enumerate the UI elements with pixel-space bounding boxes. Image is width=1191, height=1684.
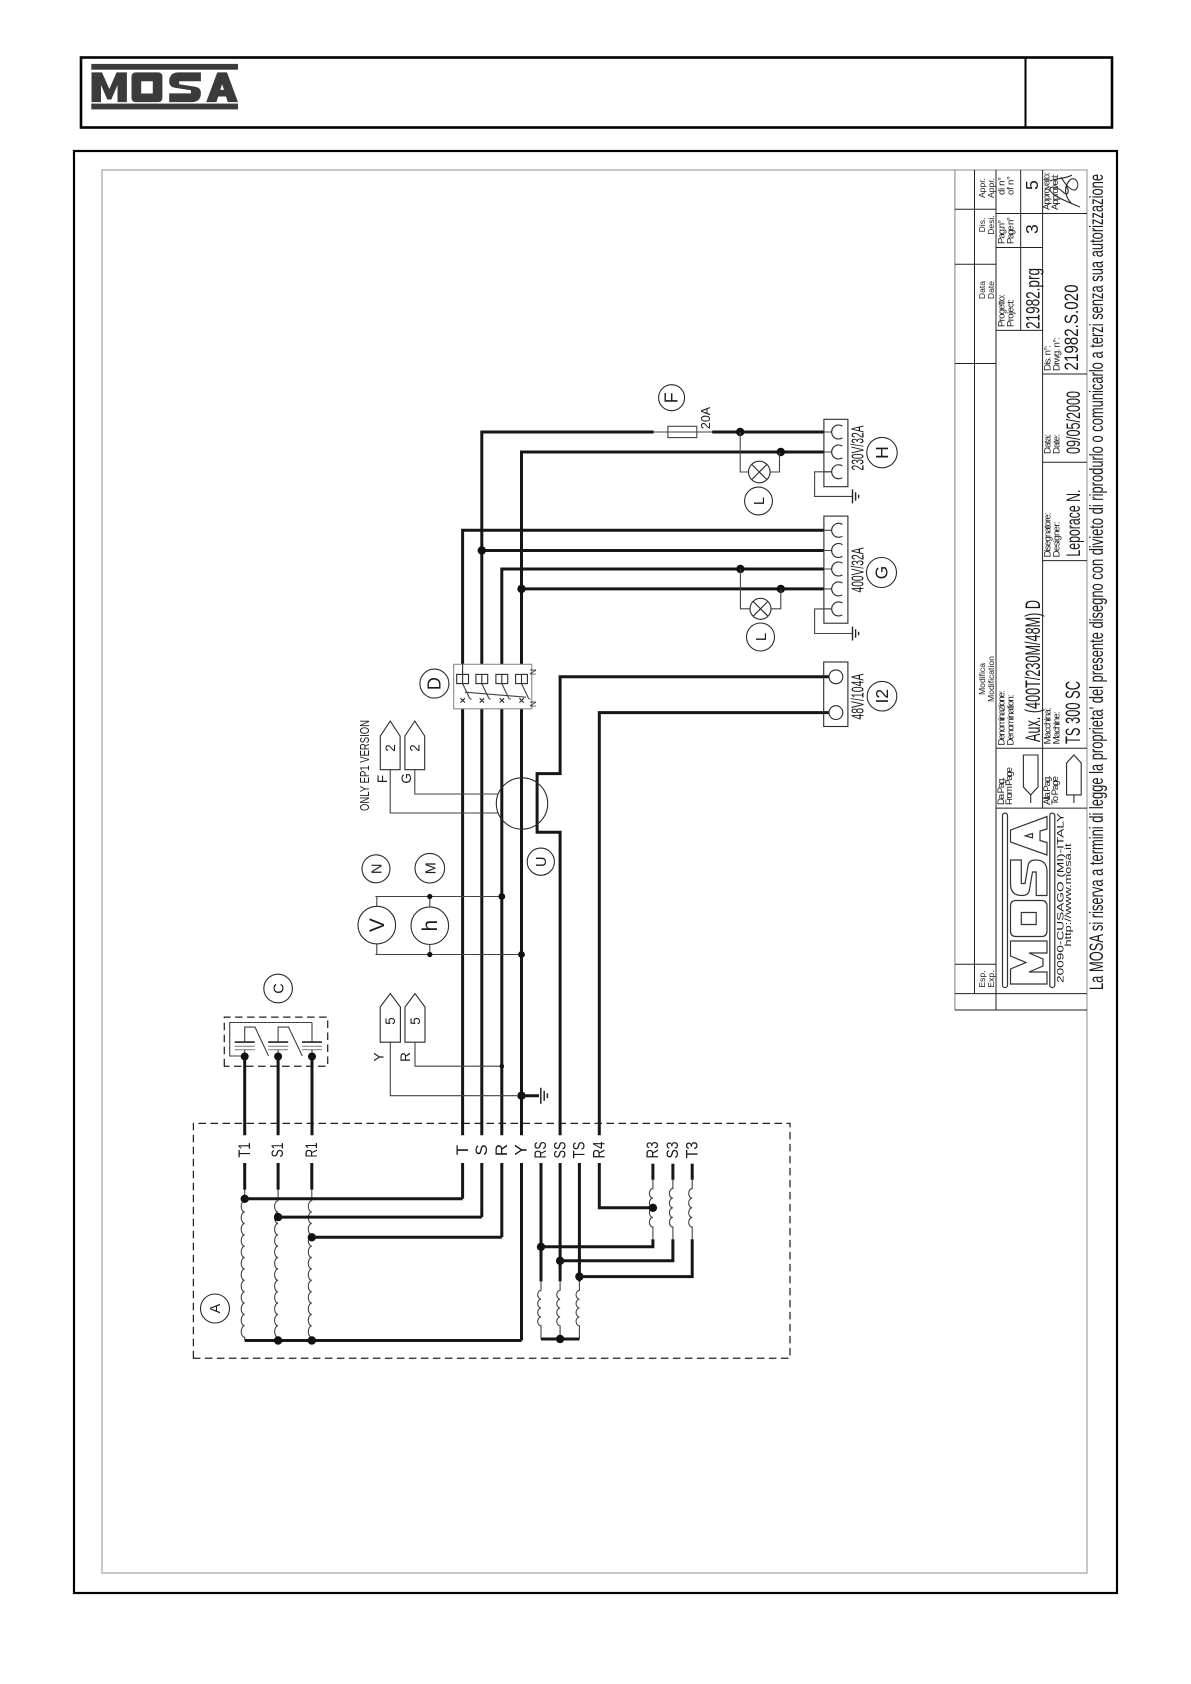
capacitor dashed box C (224, 1017, 327, 1066)
svg-text:M: M (424, 862, 440, 874)
junction dot SS (556, 1257, 564, 1265)
ground on Y wire (517, 1088, 547, 1104)
inner frame (102, 170, 1087, 1573)
aux star dot (556, 1335, 564, 1343)
meter label M (415, 853, 445, 883)
star point bus (245, 1339, 522, 1342)
socket circle G (867, 558, 897, 588)
junction dot S1 (274, 1213, 282, 1221)
svg-text:S: S (472, 1144, 491, 1155)
capacitor bank outer loop wire (230, 1023, 312, 1057)
svg-text:Exp.: Exp. (986, 970, 996, 987)
flag R5 (405, 994, 504, 1069)
svg-text:48V/104A: 48V/104A (848, 673, 868, 719)
lamp H assembly (736, 428, 785, 483)
svg-text:R: R (492, 1144, 511, 1156)
aux coil RS (538, 1281, 541, 1339)
svg-text:I2: I2 (872, 689, 892, 704)
svg-text:V: V (366, 918, 389, 932)
socket H ground (815, 472, 853, 497)
title: MOSA outline logo (1003, 813, 1055, 988)
svg-text:U: U (534, 856, 550, 866)
svg-text:S3: S3 (663, 1142, 682, 1159)
title: signature (1050, 175, 1080, 207)
junction dot R4 tap (649, 1204, 657, 1212)
svg-text:20A: 20A (699, 406, 713, 429)
svg-text:T: T (453, 1145, 472, 1155)
wire RS (540, 1163, 543, 1281)
voltmeter V (358, 906, 396, 944)
svg-text:Date: Date (986, 281, 996, 299)
wire SS with CT jog (537, 677, 829, 1282)
breaker pole S (476, 674, 491, 702)
wire TS (578, 1163, 581, 1281)
socket circle H (867, 437, 897, 467)
svg-text:R3: R3 (643, 1142, 662, 1159)
lamp G assembly (736, 565, 785, 620)
svg-text:G: G (872, 566, 892, 580)
header divider (1025, 58, 1027, 128)
svg-text:h: h (419, 920, 442, 932)
svg-text:Project:: Project: (1006, 299, 1017, 327)
svg-text:Y: Y (512, 1144, 531, 1155)
junction dot S branch (478, 546, 486, 554)
voltmeter rail right (375, 896, 501, 898)
alternator circle A (201, 1294, 230, 1323)
MOSA header logo (91, 64, 238, 110)
svg-text:ONLY EP1 VERSION: ONLY EP1 VERSION (358, 720, 372, 811)
breaker link line (465, 692, 526, 697)
stator coil R1 (308, 1201, 312, 1341)
stator coil T1 (241, 1201, 245, 1341)
title: Da Pag cell (996, 767, 1061, 805)
svg-text:21982.prg: 21982.prg (1024, 268, 1045, 329)
bus T (245, 1197, 463, 1200)
wire T1 (243, 1057, 246, 1190)
aux coil T3 (579, 1164, 692, 1277)
svg-text:http://www.mosa.it: http://www.mosa.it (1063, 843, 1074, 946)
socket I2 box (824, 662, 848, 727)
svg-text:R4: R4 (590, 1142, 609, 1159)
svg-text:R: R (398, 1052, 413, 1062)
svg-text:Appr.: Appr. (986, 178, 996, 198)
breaker pole R (496, 674, 511, 702)
svg-text:5: 5 (1022, 180, 1042, 190)
svg-text:of n°: of n° (1006, 176, 1017, 195)
hour counter h (411, 907, 449, 945)
junction dot N branch (517, 585, 525, 593)
svg-text:Page n°: Page n° (1006, 217, 1017, 244)
breaker pole T (457, 664, 472, 702)
svg-text:T1: T1 (235, 1143, 254, 1158)
svg-text:L: L (752, 497, 768, 505)
svg-text:Date:: Date: (1052, 434, 1063, 454)
svg-text:SS: SS (550, 1142, 569, 1159)
svg-text:09/05/2000: 09/05/2000 (1064, 391, 1085, 454)
svg-text:2: 2 (408, 744, 423, 752)
junction dot RS (537, 1243, 545, 1251)
aux coil S3 (560, 1164, 673, 1261)
svg-text:Y: Y (372, 1052, 387, 1061)
svg-text:5: 5 (383, 1017, 398, 1025)
svg-text:Desi.: Desi. (986, 215, 996, 235)
svg-text:Drwg. n°:: Drwg. n°: (1052, 337, 1063, 371)
lamp H label L (745, 487, 773, 515)
svg-text:230V/32A: 230V/32A (848, 425, 868, 470)
svg-text:TS 300 SC: TS 300 SC (1062, 681, 1085, 744)
bus S (278, 1216, 482, 1219)
fuse circle F (659, 385, 685, 411)
capacitor C2 (268, 1027, 302, 1056)
flag F2 (380, 721, 498, 813)
svg-text:5: 5 (408, 1017, 423, 1025)
title: from-page flag (1023, 755, 1038, 803)
svg-text:R1: R1 (302, 1143, 321, 1158)
svg-text:2: 2 (383, 744, 398, 752)
wire S trunk (482, 432, 824, 1217)
svg-text:21982.S.020: 21982.S.020 (1062, 285, 1083, 371)
svg-text:Denomination:: Denomination: (1006, 695, 1017, 746)
junction dot TS (575, 1272, 583, 1280)
junction dot R1 (308, 1233, 316, 1241)
svg-text:L: L (754, 633, 770, 641)
svg-text:F: F (375, 775, 390, 783)
socket G box (824, 516, 848, 623)
star bus dot S1 (274, 1336, 282, 1344)
capacitor circle C (264, 974, 293, 1003)
meter label N (362, 855, 390, 883)
svg-text:C: C (271, 983, 287, 993)
svg-text:H: H (872, 446, 892, 459)
wire Y trunk (522, 452, 824, 1341)
svg-text:Machine:: Machine: (1052, 711, 1063, 744)
svg-text:S1: S1 (268, 1143, 287, 1158)
junction dot T1 (241, 1195, 249, 1203)
wire S1 (277, 1057, 280, 1190)
svg-text:400V/32A: 400V/32A (848, 547, 868, 592)
svg-text:N: N (370, 864, 386, 874)
alternator dashed box A (193, 1123, 790, 1358)
aux star bus (541, 1338, 579, 1341)
svg-text:F: F (662, 392, 682, 403)
svg-text:From Page: From Page (1004, 767, 1015, 805)
meter rail dots (427, 894, 432, 899)
title: Esp Exp cell (977, 178, 996, 988)
capacitor C1 (235, 1027, 269, 1056)
bus R (312, 1236, 502, 1239)
title block grid (955, 170, 1087, 1010)
fuse F body (654, 431, 713, 433)
svg-text:Aux. (400T/230M/48M) D: Aux. (400T/230M/48M) D (1022, 600, 1045, 742)
header box (81, 58, 1112, 128)
svg-text:3: 3 (1022, 224, 1042, 234)
flag Y5 (380, 994, 517, 1096)
svg-text:N: N (528, 701, 538, 707)
socket circle I2 (867, 681, 897, 711)
wire T trunk (463, 530, 824, 1199)
svg-text:T3: T3 (682, 1142, 701, 1159)
aux coil R3 (541, 1164, 653, 1247)
svg-text:La MOSA si riserva a termini d: La MOSA si riserva a termini di legge la… (1087, 174, 1108, 990)
title: to-page flag (1067, 755, 1082, 803)
socket G ground (815, 609, 853, 634)
svg-text:D: D (425, 677, 445, 690)
svg-text:A: A (208, 1303, 224, 1313)
wire R trunk (502, 569, 824, 1237)
aux coil TS (576, 1281, 579, 1339)
flag G2 (405, 721, 499, 794)
breaker pole N (516, 674, 531, 702)
svg-text:N: N (528, 669, 538, 675)
star bus dot R1 (308, 1336, 316, 1344)
rotated landscape drawing (74, 151, 1117, 1593)
outer frame (74, 151, 1117, 1593)
wire R1 (310, 1057, 313, 1190)
title: Denominazione cell (997, 172, 1063, 746)
capacitor junction dots (241, 1053, 249, 1061)
svg-text:Leporace N.: Leporace N. (1064, 490, 1085, 557)
svg-text:TS: TS (570, 1142, 589, 1159)
CT label U (527, 848, 554, 875)
voltmeter rail left (375, 954, 521, 956)
svg-text:Designer:: Designer: (1052, 521, 1063, 557)
stator coil S1 (275, 1201, 279, 1341)
svg-text:G: G (399, 773, 414, 784)
socket H box (824, 419, 848, 486)
svg-text:Modification: Modification (986, 656, 996, 702)
svg-text:RS: RS (531, 1142, 550, 1159)
breaker circle D (420, 669, 449, 698)
breaker D box (454, 664, 532, 709)
wire R4 (599, 713, 829, 1208)
aux coil SS (557, 1281, 560, 1339)
current transformer circle (496, 778, 547, 829)
svg-text:To Page: To Page (1050, 776, 1061, 805)
lamp G label L (747, 623, 775, 651)
capacitor C3 (302, 1023, 322, 1057)
